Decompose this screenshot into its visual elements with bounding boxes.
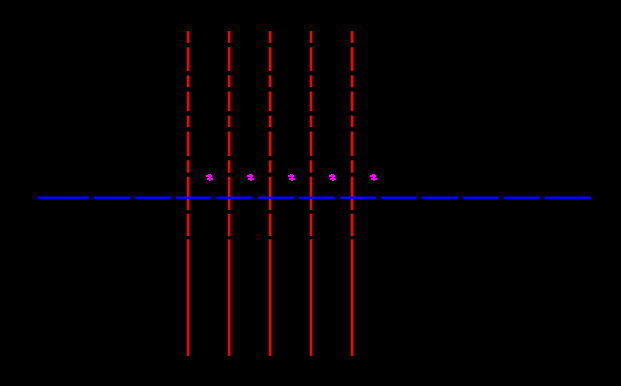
optical axis (blue dashed horizontal line, y=197.7): [38, 196, 591, 199]
lens L4 (red dashed vertical line, x=311.0): [310, 31, 313, 356]
marker M5 (magenta glyph): [370, 174, 377, 181]
marker M1 (magenta glyph): [206, 174, 213, 181]
marker M4 (magenta glyph): [329, 174, 336, 181]
lens L1 (red dashed vertical line, x=188.0): [187, 31, 190, 356]
marker M2 (magenta glyph): [247, 174, 254, 181]
lens L5 (red dashed vertical line, x=352.0): [351, 31, 354, 356]
lens L2 (red dashed vertical line, x=229.0): [228, 31, 231, 356]
lens L3 (red dashed vertical line, x=270.0): [269, 31, 272, 356]
marker M3 (magenta glyph): [288, 174, 295, 181]
